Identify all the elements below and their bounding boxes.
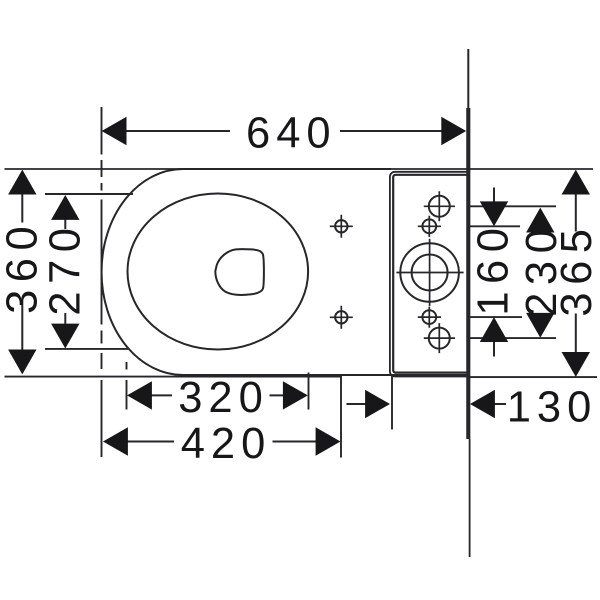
cistern hole bottom big — [429, 328, 450, 349]
dim 320 line — [151, 394, 284, 396]
wall line — [467, 49, 469, 108]
dim 640 line — [126, 130, 443, 132]
cistern inner lid line — [393, 175, 467, 373]
svg-text:130: 130 — [507, 384, 598, 432]
dim 365 line — [575, 194, 577, 353]
bowl seat hole bottom-left — [335, 311, 347, 323]
arrow 365 bottom — [562, 352, 590, 377]
extension line vertical x=341 (420 right) — [340, 375, 342, 458]
svg-text:420: 420 — [181, 420, 272, 468]
extension line right y=338 (230 bottom) — [468, 337, 556, 339]
flush water D-shape — [215, 249, 264, 295]
dim 270 line — [64, 220, 66, 324]
svg-text:270: 270 — [41, 221, 89, 316]
cistern hole top small — [422, 219, 436, 233]
extension line vertical x=308.5 (320 right) — [308, 373, 310, 410]
arrow 640 left — [102, 117, 127, 145]
extension line top (y=169 tangent) — [5, 168, 594, 170]
svg-text:320: 320 — [178, 374, 269, 422]
bowl seat hole top-left — [335, 220, 347, 232]
arrow 130 left (outside, points right) — [365, 390, 390, 418]
arrow 130 right (outside, points left) — [470, 390, 495, 418]
svg-text:640: 640 — [246, 110, 337, 158]
svg-text:160: 160 — [470, 221, 518, 316]
arrow 230 bottom — [526, 313, 554, 338]
toilet bowl outer outline — [102, 169, 467, 375]
arrow 160 top (outside, points down) — [480, 201, 508, 226]
arrow 320 left — [127, 381, 152, 409]
arrow 640 right — [441, 117, 466, 145]
arrow 360 bottom — [8, 350, 36, 375]
dim 420 line — [128, 441, 317, 443]
arrow 270 top — [51, 195, 79, 220]
arrow 320 right — [283, 381, 308, 409]
seat inner oval — [128, 194, 309, 350]
extension line bottom-left (y=374.6 tangent) — [5, 376, 342, 378]
extension line vertical x=392 (130 left) — [391, 374, 393, 430]
cistern hole top big — [429, 196, 450, 217]
svg-text:360: 360 — [0, 219, 47, 314]
dim 130 tails — [347, 403, 507, 405]
cistern big concentric circles (flush valve) — [400, 243, 459, 302]
dim 360 line — [21, 194, 23, 350]
arrow 420 left — [103, 427, 128, 455]
arrow 270 bottom — [51, 324, 79, 349]
svg-text:365: 365 — [553, 222, 600, 317]
extension line 270 bottom — [45, 348, 128, 350]
extension line vertical x=126.5 (320 left) — [126, 362, 128, 410]
extension line vertical x=101.5 dashed (640/420 left) — [101, 107, 103, 457]
extension line right y=317 (160 bottom) — [468, 316, 522, 318]
extension line right y=206 (230 top) — [468, 205, 556, 207]
arrow 360 top — [8, 170, 36, 195]
arrow 420 right — [316, 427, 341, 455]
extension line 270 top — [45, 193, 133, 195]
arrow 160 bottom (outside, points up) — [480, 317, 508, 342]
cistern outer rectangle — [390, 172, 467, 377]
arrow 230 top — [526, 208, 554, 233]
cistern hole bottom small — [422, 310, 436, 324]
arrow 365 top — [562, 170, 590, 195]
extension line bottom-right (y=377.6 for 365) — [470, 376, 597, 378]
dim 160 tails — [493, 188, 495, 357]
extension line right y=226 (160 top) — [468, 225, 520, 227]
